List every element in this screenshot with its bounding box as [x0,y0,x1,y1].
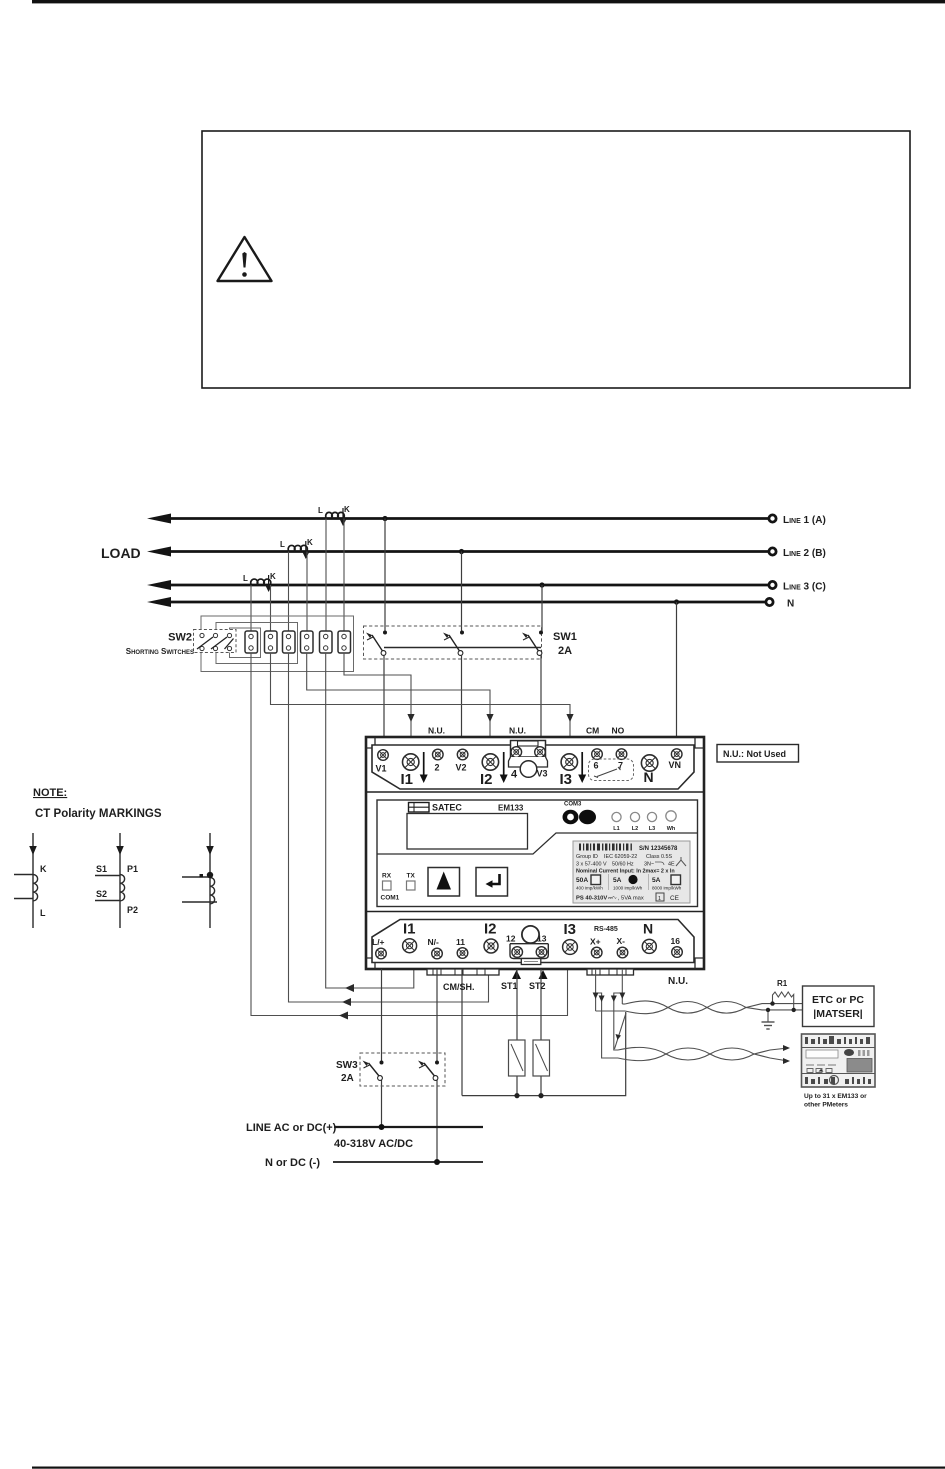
svg-text:CM/SH.: CM/SH. [443,982,475,992]
svg-text:I3: I3 [560,771,573,788]
svg-text:RX: RX [382,873,392,880]
svg-text:V1: V1 [376,764,387,774]
svg-text:12: 12 [506,934,516,944]
svg-text:ST2: ST2 [529,981,546,991]
svg-text:N: N [643,921,653,937]
svg-text:I1: I1 [403,921,416,938]
svg-text:CM: CM [586,726,599,736]
svg-text:SW2: SW2 [168,632,192,644]
svg-text:I1: I1 [401,771,414,788]
svg-text:P1: P1 [127,864,138,874]
svg-text:LOAD: LOAD [101,545,141,561]
svg-text:Class 0.5S: Class 0.5S [646,854,672,860]
svg-text:COM3: COM3 [564,802,582,808]
svg-text:6: 6 [594,761,599,771]
svg-text:LINE AC or DC(+): LINE AC or DC(+) [246,1122,337,1134]
svg-text:other PMeters: other PMeters [804,1102,848,1109]
svg-text:X+: X+ [590,937,601,947]
svg-text:Nominal Current Input: In 2max: Nominal Current Input: In 2max= 2 x In [576,869,675,875]
svg-text:3 x 57-400 V: 3 x 57-400 V [576,862,607,868]
svg-text:S/N 12345678: S/N 12345678 [639,846,678,852]
svg-text:2: 2 [435,763,440,773]
svg-text:CE: CE [670,895,679,902]
svg-text:CT Polarity MARKINGS: CT Polarity MARKINGS [35,808,162,820]
svg-text:16: 16 [671,936,681,946]
svg-text:L2: L2 [632,826,638,832]
svg-text:IEC 62059-22: IEC 62059-22 [604,854,637,860]
svg-text:5A: 5A [613,877,622,884]
svg-text:NO: NO [612,726,625,736]
svg-text:50A: 50A [576,877,588,884]
svg-text:Line 2 (B): Line 2 (B) [783,548,826,559]
svg-text:I2: I2 [484,921,497,938]
svg-text:K: K [307,538,313,547]
svg-text:L/+: L/+ [372,937,385,947]
svg-text:N.U.: N.U. [509,726,526,736]
svg-text:N.U.: Not Used: N.U.: Not Used [723,749,786,759]
svg-text:11: 11 [456,937,465,947]
svg-text:PS 40-310V: PS 40-310V [576,896,607,902]
svg-text:3N~: 3N~ [644,862,654,868]
svg-text:SW3: SW3 [336,1060,358,1071]
svg-text:L: L [318,506,323,515]
svg-text:1000 imp/kWh: 1000 imp/kWh [613,886,643,891]
svg-text:N.U.: N.U. [428,726,445,736]
svg-text:40-318V AC/DC: 40-318V AC/DC [334,1138,413,1150]
svg-text:COM1: COM1 [381,895,400,902]
svg-text:2A: 2A [558,645,572,657]
svg-text:4E: 4E [668,862,675,868]
svg-text:V2: V2 [456,763,467,773]
svg-text:N/-: N/- [428,937,440,947]
svg-text:L: L [40,908,46,918]
svg-text:N.U.: N.U. [668,976,688,987]
svg-text:R1: R1 [777,979,788,988]
svg-text:L1: L1 [613,826,619,832]
svg-text:1: 1 [658,896,661,902]
svg-text:K: K [40,864,47,874]
svg-text:L: L [243,574,248,583]
svg-text:Group ID: Group ID [576,854,598,860]
svg-text:8000 imp/kWh: 8000 imp/kWh [652,886,682,891]
svg-text:5A: 5A [652,877,661,884]
svg-text:P2: P2 [127,905,138,915]
svg-text:Line 3 (C): Line 3 (C) [783,582,826,593]
svg-text:VN: VN [669,760,682,770]
svg-text:Line 1 (A): Line 1 (A) [783,515,826,526]
svg-text:4: 4 [511,769,518,781]
svg-text:I2: I2 [480,771,493,788]
svg-text:L: L [280,540,285,549]
svg-text:K: K [344,505,350,514]
svg-text:SATEC: SATEC [432,803,462,813]
svg-text:7: 7 [618,761,623,771]
svg-text:N: N [787,599,794,610]
svg-text:N or DC (-): N or DC (-) [265,1157,320,1169]
svg-text:50/60 Hz: 50/60 Hz [612,862,634,868]
svg-text:I3: I3 [564,921,577,938]
svg-text:RS-485: RS-485 [594,926,618,933]
svg-text:Wh: Wh [667,826,676,832]
svg-text:NOTE:: NOTE: [33,787,67,799]
svg-text:S2: S2 [96,889,107,899]
svg-text:SW1: SW1 [553,631,577,643]
svg-text:⎓∿ , 5VA max: ⎓∿ , 5VA max [608,896,644,902]
svg-text:K: K [270,572,276,581]
svg-text:2A: 2A [341,1073,354,1084]
svg-text:|MATSER|: |MATSER| [813,1008,862,1020]
svg-text:ST1: ST1 [501,981,518,991]
svg-text:L3: L3 [649,826,655,832]
svg-text:V3: V3 [537,769,548,779]
svg-text:S1: S1 [96,864,107,874]
svg-text:ETC or PC: ETC or PC [812,994,864,1006]
svg-text:400 imp/kWh: 400 imp/kWh [576,886,603,891]
svg-text:Shorting Switches: Shorting Switches [126,647,194,656]
svg-text:TX: TX [407,873,416,880]
svg-text:Up to 31 x EM133 or: Up to 31 x EM133 or [804,1093,867,1100]
svg-text:X-: X- [617,936,626,946]
svg-text:N: N [644,769,654,785]
svg-text:EM133: EM133 [498,804,524,813]
